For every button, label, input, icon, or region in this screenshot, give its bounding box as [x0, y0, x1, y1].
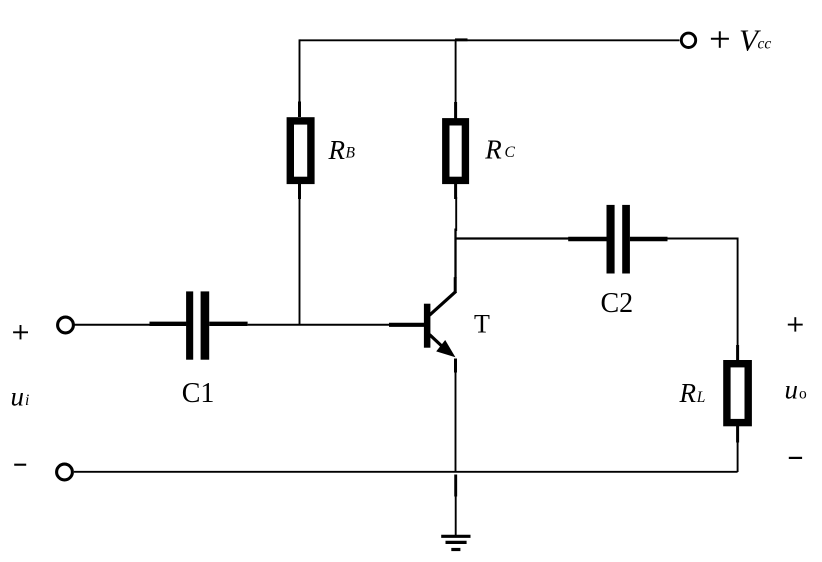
wire: RB to base node	[299, 197, 301, 326]
wire: to ground	[455, 495, 457, 535]
wire: collector to C2	[456, 237, 569, 239]
junction: RC to rail tick	[455, 38, 468, 41]
wire: bottom rail	[74, 471, 738, 473]
svg-text:i: i	[25, 392, 29, 409]
wire: rail down to RC	[455, 39, 457, 104]
ground	[441, 536, 470, 549]
wire: input plus to C1	[75, 324, 151, 326]
label input plus	[13, 325, 28, 339]
label RL	[679, 378, 706, 408]
svg-text:L: L	[696, 389, 706, 406]
label uo	[785, 375, 808, 405]
emitter diagonal	[430, 335, 447, 350]
capacitor C2	[568, 205, 667, 274]
resistor RC	[446, 102, 466, 199]
label RC	[484, 135, 515, 165]
label C2	[601, 288, 634, 319]
label C1	[182, 378, 215, 409]
collector diagonal	[430, 291, 457, 315]
emitter arrowhead	[436, 340, 455, 357]
label Vcc	[739, 22, 771, 57]
label T	[474, 310, 490, 339]
svg-text:o: o	[799, 386, 807, 403]
wire: RC to collector	[455, 197, 458, 278]
svg-text:C2: C2	[601, 288, 634, 319]
terminal: +Vcc	[681, 33, 695, 47]
collector stub	[454, 277, 457, 292]
svg-text:cc: cc	[758, 36, 772, 53]
svg-text:C1: C1	[182, 378, 215, 409]
svg-text:R: R	[484, 135, 502, 165]
transistor T	[389, 277, 456, 372]
label RB	[328, 135, 356, 165]
label output plus	[788, 317, 803, 331]
label +Vcc plus	[711, 31, 729, 48]
wire: +Vcc top rail	[300, 39, 680, 41]
terminal: input minus	[57, 464, 73, 480]
capacitor C1	[150, 291, 248, 359]
svg-text:C: C	[505, 144, 516, 161]
wire: rail down to RB	[299, 39, 301, 103]
label ui	[11, 382, 30, 412]
wire: C2 to RL corner	[667, 239, 738, 347]
base bar	[424, 304, 431, 348]
emitter stub	[454, 359, 457, 373]
terminal: input plus	[58, 317, 74, 333]
wire: stub below rail	[454, 475, 457, 497]
resistor RB	[290, 102, 311, 200]
label input minus	[14, 464, 26, 466]
base lead	[389, 323, 425, 327]
wire: RL to bottom rail	[737, 441, 739, 472]
svg-text:u: u	[11, 382, 25, 412]
wire: C1 to base	[248, 324, 390, 326]
wire: emitter down across rail	[455, 371, 457, 473]
svg-text:R: R	[679, 378, 697, 408]
svg-text:T: T	[474, 310, 490, 339]
label output minus	[789, 457, 802, 459]
resistor RL	[727, 345, 748, 443]
svg-text:B: B	[346, 145, 356, 162]
svg-text:R: R	[328, 135, 346, 165]
svg-text:u: u	[785, 375, 799, 405]
